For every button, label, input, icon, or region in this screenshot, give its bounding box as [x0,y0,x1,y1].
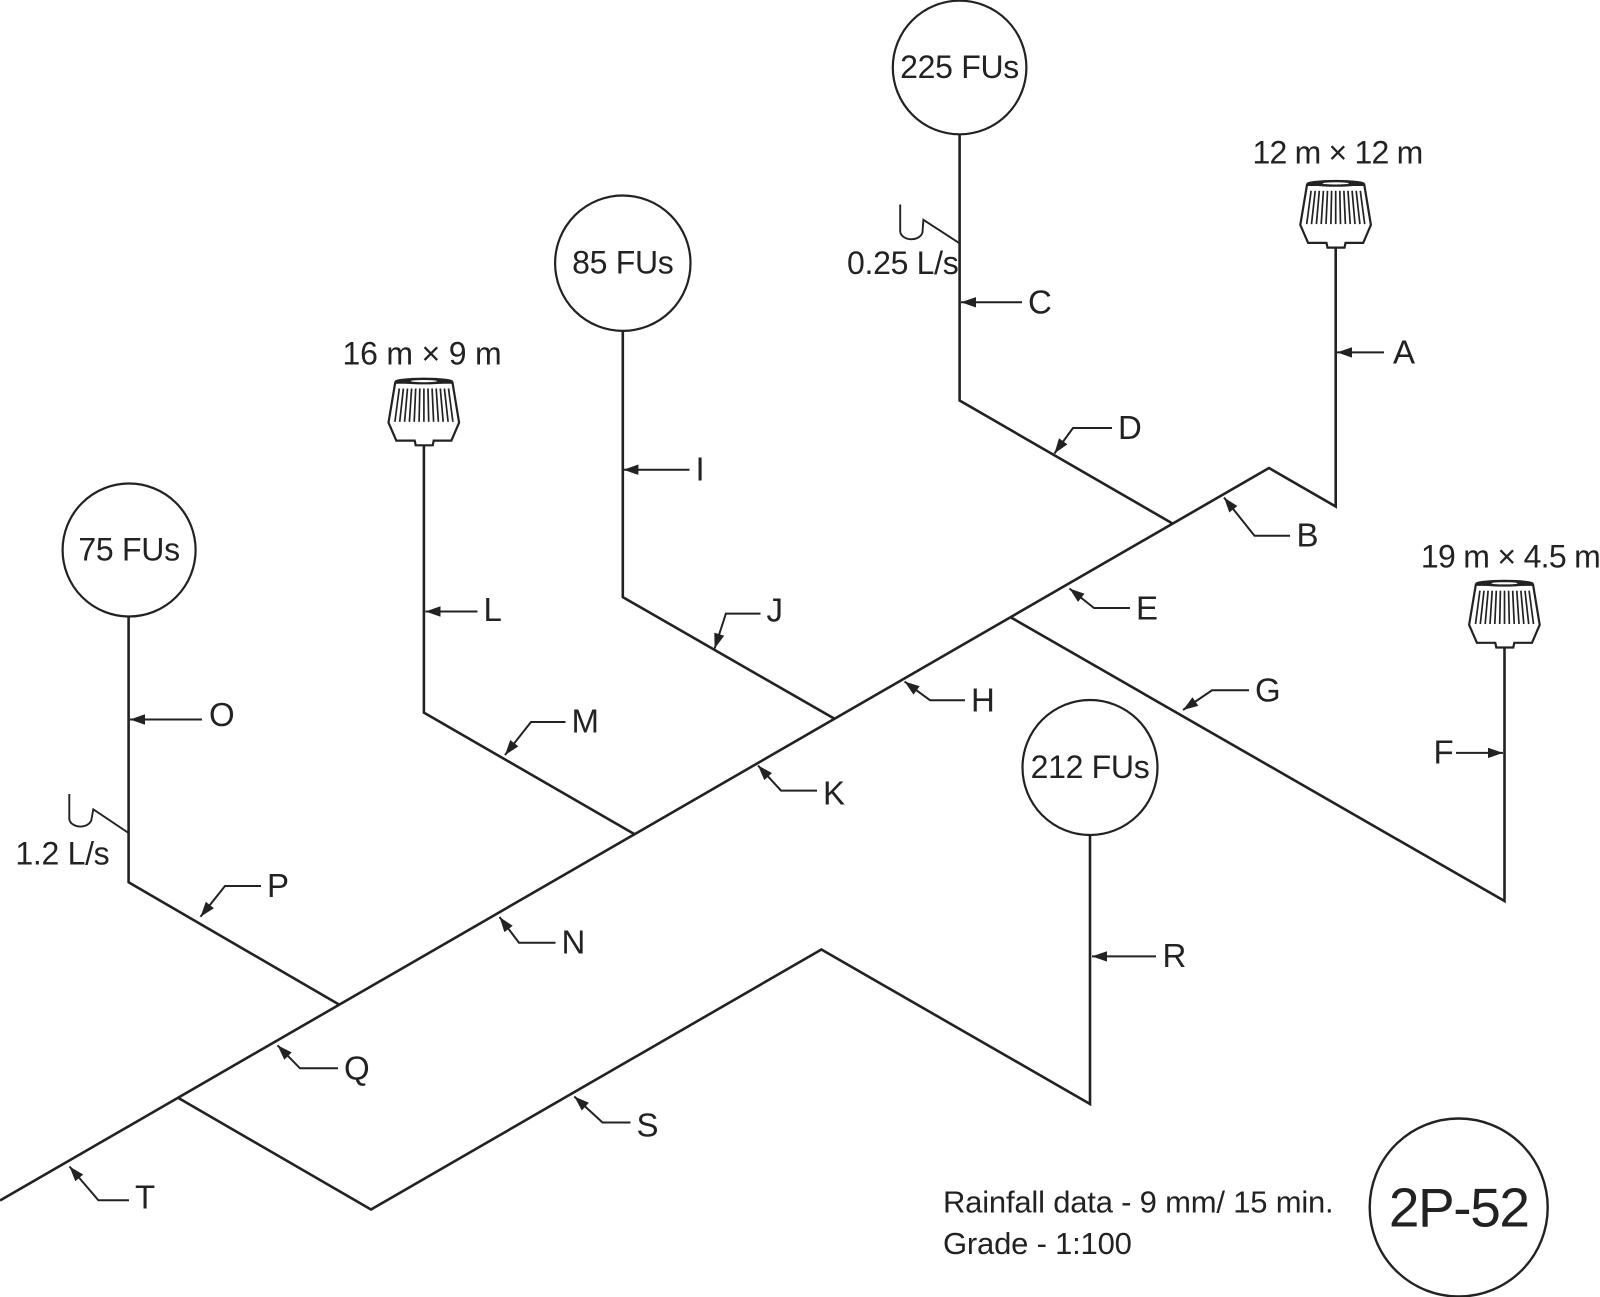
label R leader [1092,951,1156,961]
svg-text:212 FUs: 212 FUs [1031,749,1150,785]
node 85 FUs [555,196,690,331]
node 75 FUs [63,484,196,617]
wire stack O-P (75 FUs) [129,617,339,1005]
node 212 FUs [1023,700,1158,835]
svg-text:Q: Q [344,1050,370,1087]
svg-text:J: J [767,592,784,629]
label G leader [1183,690,1249,710]
label T leader [70,1167,130,1201]
label F leader [1456,748,1503,758]
label H leader [905,682,966,701]
wire branch G with riser F (19m x 4.5m drain) [1011,617,1505,901]
label Q leader [278,1045,339,1068]
svg-text:R: R [1163,937,1187,974]
label A leader [1337,347,1384,357]
roof drain 16 m x 9 m [389,378,460,446]
svg-text:19 m × 4.5 m: 19 m × 4.5 m [1421,539,1600,575]
svg-text:Rainfall data - 9 mm/ 15 min.: Rainfall data - 9 mm/ 15 min. [943,1185,1333,1220]
svg-text:0.25 L/s: 0.25 L/s [847,245,958,281]
wire branch S with riser R (212 FUs stack) [178,835,1090,1210]
label O leader [130,714,202,724]
svg-text:H: H [971,682,995,719]
svg-text:16 m × 9 m: 16 m × 9 m [343,336,502,372]
wire stack L-M (16m x 9m drain) [424,445,635,834]
wire main building drain (T-Q-N-K-H-E-B) with riser A [0,247,1336,1200]
label S leader [574,1097,630,1123]
svg-text:O: O [209,696,235,733]
svg-text:C: C [1028,284,1052,321]
svg-text:I: I [696,451,705,488]
label K leader [758,766,817,791]
label D leader [1054,428,1112,454]
svg-text:A: A [1393,334,1415,371]
svg-text:T: T [135,1179,155,1216]
svg-text:2P-52: 2P-52 [1389,1177,1529,1239]
svg-text:E: E [1136,590,1158,627]
wire stack C-D (225 FUs) [960,134,1173,524]
label J leader [714,614,760,649]
drawing number 2P-52 [1370,1119,1548,1297]
label B leader [1224,498,1290,536]
svg-text:M: M [572,703,600,740]
svg-text:L: L [484,591,502,628]
svg-text:B: B [1297,517,1319,554]
wire stack I-J (85 FUs) [623,331,835,719]
label I leader [623,465,689,475]
roof drain 12 m x 12 m [1300,180,1371,248]
fixture hook 1.2 L/s on stack O [69,794,128,833]
label M leader [505,722,566,755]
svg-text:P: P [267,867,289,904]
label P leader [201,886,262,917]
svg-text:N: N [562,924,586,961]
svg-text:G: G [1255,672,1281,709]
svg-text:1.2 L/s: 1.2 L/s [15,836,109,872]
svg-text:D: D [1118,409,1142,446]
svg-text:F: F [1434,734,1454,771]
svg-text:225 FUs: 225 FUs [900,49,1019,85]
label E leader [1070,589,1131,609]
svg-text:S: S [637,1107,659,1144]
label N leader [500,917,556,943]
roof drain 19 m x 4.5 m [1469,580,1540,648]
label L leader [426,606,478,616]
svg-text:12 m × 12 m: 12 m × 12 m [1253,135,1423,171]
node 225 FUs [893,1,1027,135]
svg-text:85 FUs: 85 FUs [572,245,673,281]
svg-text:75 FUs: 75 FUs [78,532,179,568]
label C leader [961,297,1022,307]
svg-text:K: K [823,775,845,812]
svg-text:Grade - 1:100: Grade - 1:100 [943,1226,1132,1261]
fixture hook 0.25 L/s on stack C [900,205,959,244]
